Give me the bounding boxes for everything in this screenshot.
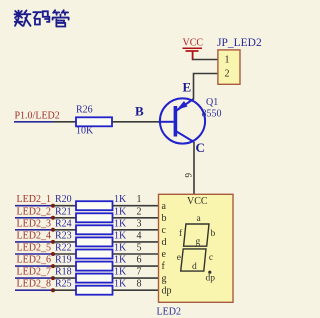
resistor R26 body	[76, 117, 112, 126]
wire R19 to display pin 6	[113, 265, 159, 267]
svg-text:LED2_6: LED2_6	[17, 255, 51, 266]
wire R20 to display pin 1	[113, 205, 159, 207]
title 数码管	[15, 10, 69, 26]
wire to resistor R18	[53, 277, 76, 279]
svg-text:1: 1	[225, 55, 230, 66]
svg-text:LED2_2: LED2_2	[17, 206, 51, 217]
svg-text:2: 2	[225, 69, 230, 80]
junction row 8	[51, 288, 55, 292]
seven segment digit	[181, 224, 209, 271]
connector JP_LED2 body	[218, 50, 240, 84]
wire P1.0 to R26	[53, 121, 76, 123]
svg-text:R18: R18	[55, 267, 72, 278]
wire to resistor R24	[53, 229, 76, 231]
wire R23 to display pin 4	[113, 241, 159, 243]
wire LED2_1 blue segment	[15, 205, 53, 207]
svg-text:E: E	[183, 80, 192, 95]
svg-text:c: c	[209, 253, 213, 263]
wire to resistor R20	[53, 205, 76, 207]
svg-text:8: 8	[137, 279, 142, 290]
svg-text:LED2_8: LED2_8	[17, 279, 51, 290]
svg-text:1K: 1K	[114, 243, 127, 254]
wire LED2_7 blue segment	[15, 277, 53, 279]
svg-text:5: 5	[137, 243, 142, 254]
svg-text:d: d	[162, 237, 167, 248]
svg-text:1K: 1K	[114, 279, 127, 290]
junction row 6	[51, 264, 55, 268]
svg-text:g: g	[162, 273, 167, 284]
svg-text:b: b	[211, 229, 216, 239]
svg-text:P1.0/LED2: P1.0/LED2	[15, 110, 60, 121]
dp dot	[208, 271, 211, 274]
svg-text:1K: 1K	[114, 267, 127, 278]
wire R26 to Q1 base	[112, 121, 159, 123]
junction row 7	[51, 276, 55, 280]
wire LED2_4 blue segment	[15, 241, 53, 243]
svg-text:R19: R19	[55, 255, 72, 266]
wire collector to display	[193, 142, 195, 194]
svg-text:R26: R26	[76, 105, 93, 116]
wire R21 to display pin 2	[113, 217, 159, 219]
segment labels	[177, 214, 216, 283]
wire R25 to display pin 8	[113, 289, 159, 291]
wire LED2_5 blue segment	[15, 253, 53, 255]
junction row 2	[51, 216, 55, 220]
svg-text:LED2_3: LED2_3	[17, 218, 51, 229]
svg-text:1K: 1K	[114, 218, 127, 229]
svg-text:dp: dp	[162, 285, 172, 296]
svg-text:1K: 1K	[114, 230, 127, 241]
svg-text:e: e	[177, 253, 181, 263]
svg-text:R25: R25	[55, 279, 72, 290]
junction row 5	[51, 252, 55, 256]
svg-text:LED2_1: LED2_1	[17, 194, 51, 205]
svg-text:1: 1	[137, 194, 142, 205]
svg-text:8550: 8550	[202, 109, 222, 120]
svg-text:1K: 1K	[114, 194, 127, 205]
svg-text:c: c	[162, 225, 167, 236]
svg-text:3: 3	[137, 218, 142, 229]
svg-text:LED2: LED2	[157, 307, 181, 318]
svg-text:9: 9	[184, 173, 194, 178]
wire to resistor R19	[53, 265, 76, 267]
svg-text:LED2_7: LED2_7	[17, 267, 51, 278]
wire to resistor R21	[53, 217, 76, 219]
svg-text:LED2_5: LED2_5	[17, 243, 51, 254]
wire R24 to display pin 3	[113, 229, 159, 231]
svg-text:7: 7	[137, 267, 142, 278]
svg-text:R22: R22	[55, 243, 72, 254]
svg-text:JP_LED2: JP_LED2	[217, 37, 262, 49]
svg-text:B: B	[135, 104, 144, 119]
svg-text:Q1: Q1	[206, 97, 218, 108]
svg-text:R24: R24	[55, 218, 72, 229]
svg-text:d: d	[192, 262, 197, 272]
wire to resistor R23	[53, 241, 76, 243]
svg-text:6: 6	[137, 255, 142, 266]
wire LED2_8 blue segment	[15, 289, 53, 291]
svg-text:R23: R23	[55, 230, 72, 241]
svg-text:4: 4	[137, 230, 142, 241]
svg-text:VCC: VCC	[187, 196, 208, 207]
svg-text:1K: 1K	[114, 255, 127, 266]
svg-text:LED2_4: LED2_4	[17, 230, 51, 241]
svg-text:10K: 10K	[76, 126, 94, 137]
svg-text:C: C	[196, 140, 205, 155]
svg-text:VCC: VCC	[183, 38, 204, 49]
wire LED2_3 blue segment	[15, 229, 53, 231]
junction row 1	[51, 204, 55, 208]
wire JP pin2 to emitter	[194, 74, 219, 100]
svg-text:a: a	[162, 201, 167, 212]
wire to resistor R25	[53, 289, 76, 291]
svg-text:R21: R21	[55, 206, 72, 217]
svg-text:R20: R20	[55, 194, 72, 205]
wire R18 to display pin 7	[113, 277, 159, 279]
power VCC	[183, 38, 204, 61]
svg-text:e: e	[162, 249, 167, 260]
junction row 4	[51, 240, 55, 244]
svg-text:dp: dp	[206, 273, 216, 283]
wire to resistor R22	[53, 253, 76, 255]
svg-text:2: 2	[137, 206, 142, 217]
wire R22 to display pin 5	[113, 253, 159, 255]
wire LED2_6 blue segment	[15, 265, 53, 267]
junction row 3	[51, 228, 55, 232]
wire VCC to JP pin1	[193, 59, 218, 61]
svg-text:g: g	[196, 237, 201, 247]
wire P1.0/LED2 blue segment	[14, 121, 53, 123]
wire LED2_2 blue segment	[15, 217, 53, 219]
transistor Q1 8550	[159, 98, 206, 143]
display LED2	[159, 194, 234, 302]
svg-text:1K: 1K	[114, 206, 127, 217]
svg-text:b: b	[162, 213, 167, 224]
